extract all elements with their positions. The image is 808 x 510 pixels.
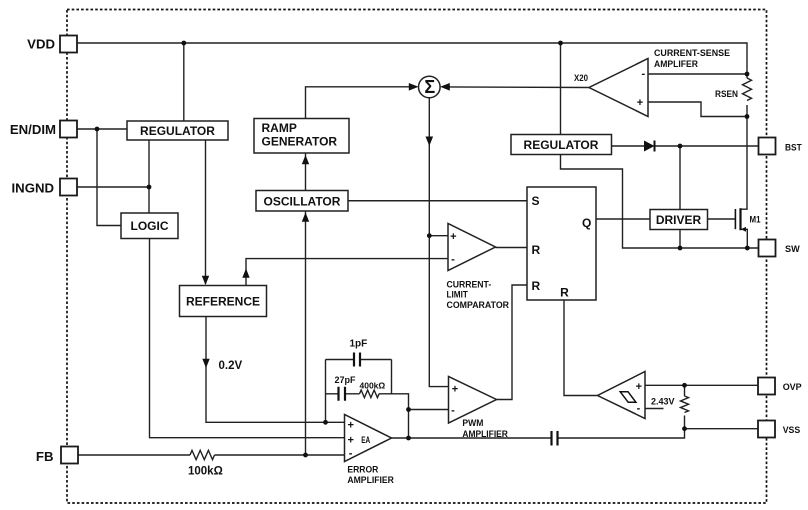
pin OVP <box>758 378 775 395</box>
wire REFERENCE 0.2V down to EA plus1 <box>206 317 345 423</box>
capacitor 27pF <box>339 387 346 401</box>
box REFERENCE <box>180 286 267 317</box>
svg-text:BST: BST <box>785 142 802 152</box>
wire comp node down to EA output <box>408 410 410 439</box>
svg-text:-: - <box>451 405 455 417</box>
wire OSCILLATOR to latch S <box>348 200 527 202</box>
wire OVP resistor stubs <box>684 385 686 428</box>
svg-text:+: + <box>347 420 353 432</box>
svg-text:CURRENT-SENSE: CURRENT-SENSE <box>654 48 730 58</box>
svg-text:EA: EA <box>361 435 370 445</box>
op-amp ERROR AMPLIFIER EA <box>345 415 392 462</box>
box SR latch <box>527 187 596 300</box>
pin SW <box>759 240 776 257</box>
svg-text:-: - <box>349 448 353 460</box>
svg-text:LOGIC: LOGIC <box>131 219 169 233</box>
resistor R-OVP <box>681 396 689 412</box>
svg-text:REGULATOR: REGULATOR <box>524 138 599 152</box>
svg-text:R: R <box>560 286 569 300</box>
svg-text:PWM: PWM <box>462 418 483 428</box>
svg-text:ERROR: ERROR <box>347 464 378 474</box>
pin EN/DIM <box>60 121 77 138</box>
box OSCILLATOR <box>256 191 348 212</box>
svg-text:REFERENCE: REFERENCE <box>186 294 260 308</box>
wire VDD top rail <box>77 43 747 74</box>
junction dots <box>181 41 186 46</box>
svg-text:CURRENT-: CURRENT- <box>447 280 492 290</box>
wire 27pF 400k branch <box>326 394 409 410</box>
wire OSCILLATOR to RAMP GENERATOR <box>305 153 307 191</box>
pin VDD <box>60 36 77 53</box>
wire comp left rail <box>325 360 327 423</box>
comparator OVP with hysteresis <box>598 372 646 419</box>
wire EA output line <box>392 437 552 439</box>
svg-text:-: - <box>637 403 641 415</box>
wire comp node to PWM minus <box>409 409 449 411</box>
wire EN/DIM branch to LOGIC <box>97 129 121 226</box>
arrow up on REFERENCE output <box>242 269 249 278</box>
transistor M1 <box>734 209 736 229</box>
wire REGULATOR to LOGIC <box>148 140 150 213</box>
svg-text:R: R <box>532 279 541 293</box>
svg-text:+: + <box>637 97 643 109</box>
wire right REGULATOR bottom to SW rail <box>561 155 759 249</box>
svg-text:+: + <box>452 384 458 396</box>
svg-text:AMPLIFER: AMPLIFER <box>654 59 698 69</box>
pin BST <box>759 138 776 155</box>
wire OVP comparator plus to OVP pin <box>645 384 758 386</box>
arrow into sigma from left <box>409 83 419 91</box>
diode D1 <box>644 141 655 152</box>
wire 1pF branch <box>326 359 392 361</box>
wire comparator out to latch R <box>496 247 528 249</box>
svg-text:SW: SW <box>785 244 800 254</box>
wire CSA minus input <box>648 73 747 75</box>
svg-text:FB: FB <box>36 449 54 464</box>
capacitor 1pF <box>354 353 360 367</box>
resistor 400k <box>360 390 380 398</box>
svg-text:100kΩ: 100kΩ <box>188 466 223 478</box>
wire branch to comparator plus <box>429 235 448 237</box>
svg-text:R: R <box>532 243 541 257</box>
svg-text:+: + <box>636 381 642 393</box>
wire CSA plus input <box>648 102 747 117</box>
wire 2.43V stub on comparator minus <box>645 408 664 410</box>
wire latch Q to DRIVER <box>596 218 650 220</box>
svg-text:REGULATOR: REGULATOR <box>140 124 215 138</box>
wire FB line to EA minus <box>78 454 345 456</box>
op-amp PWM AMPLIFIER <box>449 377 497 424</box>
svg-text:EN/DIM: EN/DIM <box>10 122 56 137</box>
box REGULATOR right <box>511 135 612 155</box>
svg-text:GENERATOR: GENERATOR <box>262 135 338 149</box>
svg-text:0.2V: 0.2V <box>219 360 243 372</box>
wire RAMP GENERATOR to sigma <box>306 87 415 119</box>
wire PWM out to latch R2 <box>497 285 528 400</box>
pin VSS <box>758 421 775 438</box>
wire M1 source to SW rail <box>741 229 748 248</box>
wire BST branch to DRIVER top <box>679 146 681 210</box>
capacitor C-comp on EA output <box>552 431 558 446</box>
svg-text:OSCILLATOR: OSCILLATOR <box>264 194 341 208</box>
arrow up into RAMP GENERATOR bottom <box>302 155 309 164</box>
wire right REGULATOR to diode to BST <box>612 145 759 147</box>
svg-text:-: - <box>451 254 455 266</box>
svg-text:+: + <box>347 434 353 446</box>
svg-text:DRIVER: DRIVER <box>656 213 702 227</box>
box RAMP GENERATOR <box>254 119 349 154</box>
svg-text:S: S <box>532 194 540 208</box>
wire CSA output to sigma <box>445 86 590 89</box>
svg-text:AMPLIFIER: AMPLIFIER <box>347 475 394 485</box>
wire latch R3 down to OVP comparator out <box>564 300 598 396</box>
wire VDD to right REGULATOR top <box>560 43 562 135</box>
svg-text:2.43V: 2.43V <box>651 397 675 407</box>
pin FB <box>61 447 78 464</box>
op-amp CSA X20 <box>589 59 648 117</box>
comparator CURRENT-LIMIT <box>448 224 496 271</box>
svg-text:1pF: 1pF <box>350 339 368 350</box>
wire RSEN bottom to M1 drain <box>741 105 748 209</box>
svg-text:VDD: VDD <box>27 37 55 52</box>
svg-text:RSEN: RSEN <box>715 89 738 99</box>
wire sigma output down to PWM plus <box>429 98 448 387</box>
wire VDD to left REGULATOR top <box>183 43 185 121</box>
wire VSS rail <box>685 428 759 430</box>
wire DRIVER to M1 gate <box>708 218 736 220</box>
box LOGIC <box>121 213 178 239</box>
wire cap to VSS node <box>558 429 685 438</box>
svg-text:OVP: OVP <box>783 382 802 392</box>
svg-text:+: + <box>450 231 456 243</box>
wire DRIVER bottom to SW rail <box>679 230 681 249</box>
svg-text:-: - <box>641 68 645 80</box>
wire LOGIC down to EA plus2 <box>150 239 345 438</box>
svg-text:400kΩ: 400kΩ <box>360 381 386 391</box>
svg-text:RAMP: RAMP <box>262 121 297 135</box>
wire REGULATOR to REFERENCE <box>205 140 207 284</box>
arrow down on 0.2V line <box>202 359 209 368</box>
svg-text:X20: X20 <box>574 73 588 83</box>
svg-text:LIMIT: LIMIT <box>447 290 469 300</box>
wire EN/DIM to REGULATOR <box>77 128 127 130</box>
svg-text:Q: Q <box>582 216 591 230</box>
wire REFERENCE output up and right to comparator minus <box>246 259 448 286</box>
svg-text:COMPARATOR: COMPARATOR <box>447 300 510 310</box>
summing node sigma <box>419 76 441 98</box>
arrow up into OSCILLATOR bottom <box>302 213 309 222</box>
wire RSEN top stub <box>746 74 748 78</box>
pin INGND <box>60 179 77 196</box>
svg-text:INGND: INGND <box>12 180 55 195</box>
arrow into REFERENCE top <box>202 276 209 285</box>
wire FB branch up to OSCILLATOR <box>305 211 307 455</box>
wire INGND to node <box>77 186 149 188</box>
svg-text:M1: M1 <box>750 215 761 225</box>
box DRIVER <box>650 210 708 230</box>
resistor RSEN <box>743 78 752 101</box>
arrow down on sigma output <box>426 137 434 147</box>
svg-text:Σ: Σ <box>424 77 435 97</box>
box REGULATOR left <box>127 121 228 140</box>
svg-text:AMPLIFIER: AMPLIFIER <box>462 429 508 439</box>
svg-text:27pF: 27pF <box>335 375 357 385</box>
wire comp right rail <box>391 360 393 394</box>
arrow into sigma from right <box>440 83 450 91</box>
resistor 100k <box>190 450 215 459</box>
svg-text:VSS: VSS <box>783 425 801 435</box>
